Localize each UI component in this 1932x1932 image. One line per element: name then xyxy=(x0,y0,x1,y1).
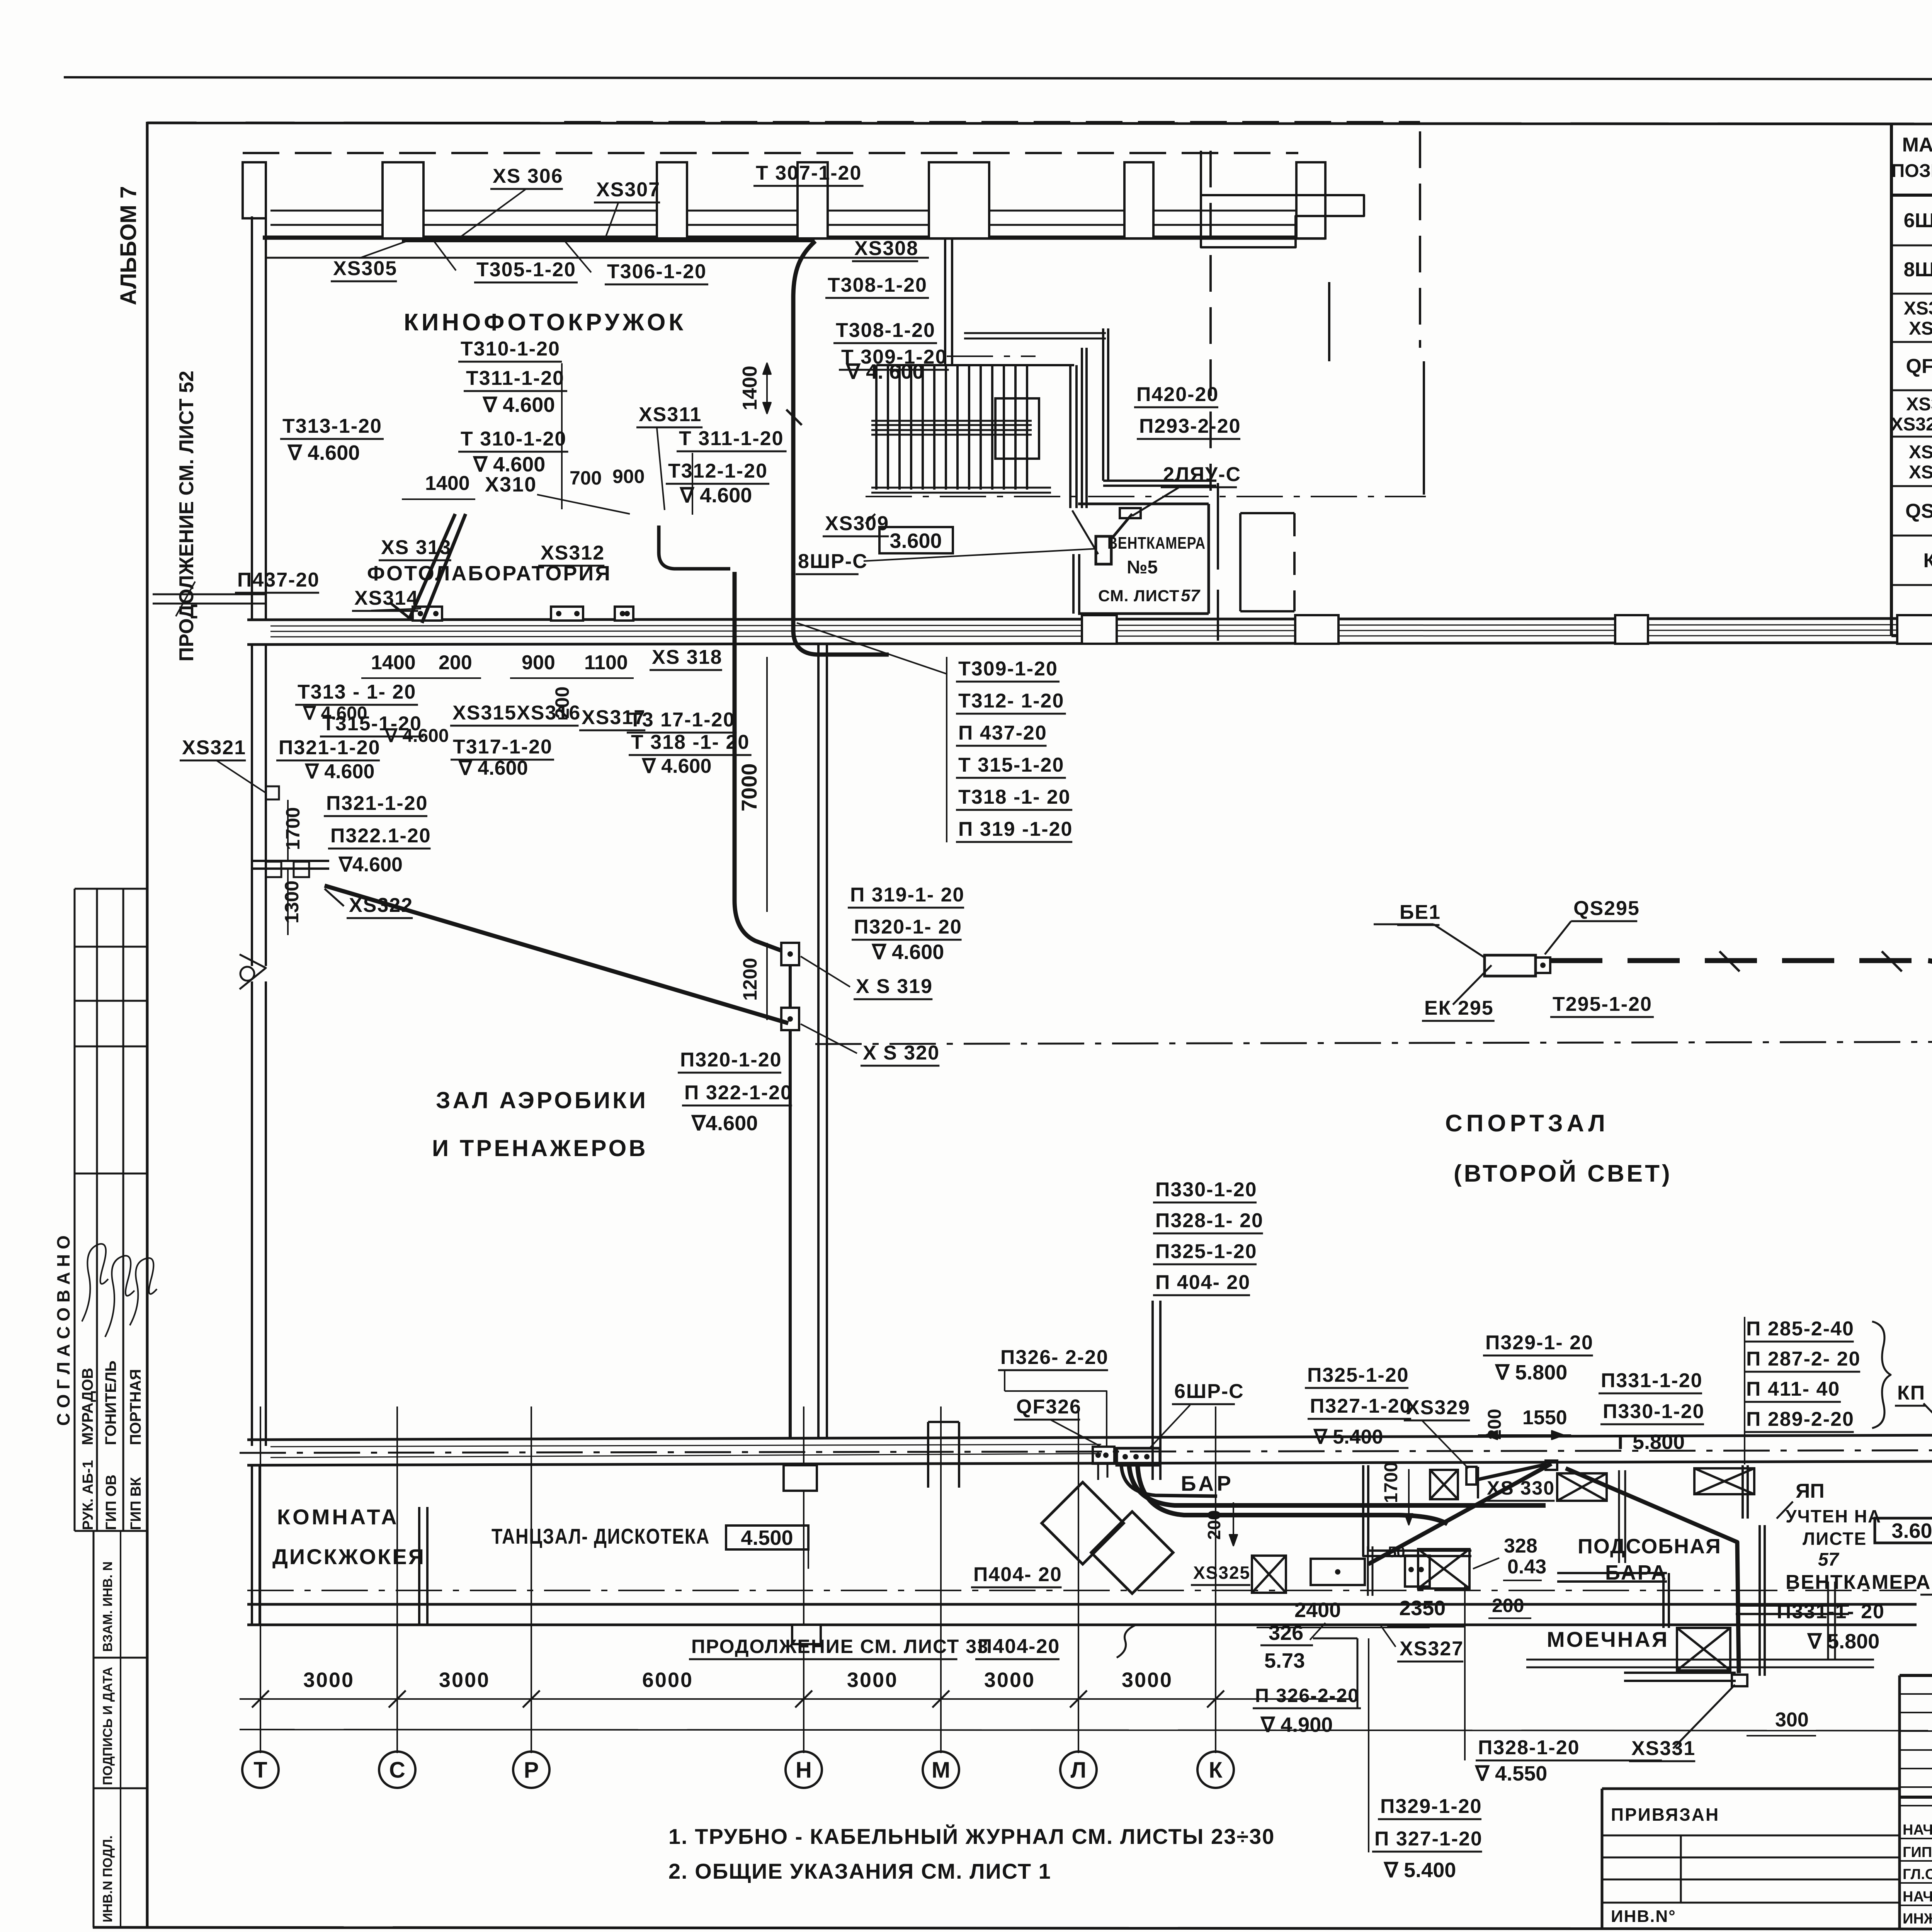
2LJAU device xyxy=(1120,508,1141,518)
svg-text:П329-1- 20: П329-1- 20 xyxy=(1485,1332,1594,1354)
wall sockets XS321-322 xyxy=(266,786,279,799)
wall above ventkamera5 xyxy=(964,332,1106,334)
hall east wall xyxy=(817,645,820,1438)
svg-text:ПРОДОЛЖЕНИЕ СМ. ЛИСТ 33: ПРОДОЛЖЕНИЕ СМ. ЛИСТ 33 xyxy=(691,1636,989,1657)
svg-text:И ТРЕНАЖЕРОВ: И ТРЕНАЖЕРОВ xyxy=(432,1135,648,1161)
svg-text:X310: X310 xyxy=(485,473,537,496)
shaft right of vent5 xyxy=(1239,513,1242,611)
svg-text:XS325,: XS325, xyxy=(1906,394,1932,415)
svg-text:УЧТЕН НА: УЧТЕН НА xyxy=(1786,1506,1881,1526)
svg-text:П 404- 20: П 404- 20 xyxy=(1155,1271,1250,1294)
axis 15 dashdot to circle xyxy=(240,1450,1932,1453)
svg-text:7000: 7000 xyxy=(737,763,761,811)
frame bottom border xyxy=(93,1927,1932,1930)
svg-text:∇ 4.600: ∇ 4.600 xyxy=(304,760,374,783)
svg-text:Т 307-1-20: Т 307-1-20 xyxy=(756,162,862,184)
wire from XS308 down xyxy=(793,241,889,655)
svg-text:XS331: XS331 xyxy=(1631,1737,1696,1760)
brace right xyxy=(1872,1321,1891,1428)
fotolab partition xyxy=(252,860,329,862)
svg-text:XS 330: XS 330 xyxy=(1487,1477,1555,1499)
svg-text:3000: 3000 xyxy=(847,1668,898,1692)
upper dashed line y316 xyxy=(564,121,1420,123)
svg-text:П 287-2- 20: П 287-2- 20 xyxy=(1746,1348,1861,1370)
svg-text:П331-1-20: П331-1-20 xyxy=(1601,1369,1703,1392)
svg-text:X S 320: X S 320 xyxy=(863,1042,940,1064)
svg-text:С О Г Л А С О В А Н О: С О Г Л А С О В А Н О xyxy=(53,1235,73,1426)
left exterior wall xyxy=(251,216,253,620)
wire trunk x1901 down (7000) xyxy=(735,572,781,951)
svg-text:П327-1-20: П327-1-20 xyxy=(1310,1395,1412,1417)
svg-text:∇ 4.600: ∇ 4.600 xyxy=(458,757,528,779)
svg-text:П 411- 40: П 411- 40 xyxy=(1746,1378,1840,1400)
ventkamera5 west wall xyxy=(1102,328,1104,481)
stair axis dashdot short xyxy=(947,355,1036,357)
svg-text:3.600: 3.600 xyxy=(889,529,942,553)
svg-text:СПОРТЗАЛ: СПОРТЗАЛ xyxy=(1445,1110,1609,1137)
svg-text:Т306-1-20: Т306-1-20 xyxy=(607,260,707,283)
podsobnaya east riser pair xyxy=(1618,1470,1620,1563)
bottom axes stems and circles xyxy=(260,1406,261,1753)
wire XS311 down to XS312 xyxy=(659,526,730,569)
svg-text:ДИСКЖОКЕЯ: ДИСКЖОКЕЯ xyxy=(272,1544,425,1569)
svg-text:XS 306: XS 306 xyxy=(493,165,563,187)
svg-text:1700: 1700 xyxy=(282,807,304,850)
bar diagonal trunk to XS331 xyxy=(1566,1468,1739,1673)
svg-text:Т3 17-1-20: Т3 17-1-20 xyxy=(629,709,735,731)
svg-text:6ШР-С: 6ШР-С xyxy=(1174,1380,1244,1403)
svg-text:1400: 1400 xyxy=(371,651,416,674)
svg-text:ВЗАМ. ИНВ. N: ВЗАМ. ИНВ. N xyxy=(100,1561,115,1652)
svg-text:Т 318 -1- 20: Т 318 -1- 20 xyxy=(631,731,750,753)
svg-text:КОМНАТА: КОМНАТА xyxy=(277,1505,399,1529)
title block outer xyxy=(1900,1674,1932,1677)
svg-text:8ШР-С: 8ШР-С xyxy=(1904,259,1932,281)
svg-text:XS322: XS322 xyxy=(1909,318,1932,339)
8ShR-S device xyxy=(1096,536,1111,564)
ventkamera5 room xyxy=(1078,503,1209,505)
svg-text:П325-1-20: П325-1-20 xyxy=(1307,1364,1409,1386)
svg-text:ЛИСТЕ: ЛИСТЕ xyxy=(1803,1529,1867,1549)
svg-text:П331-1- 20: П331-1- 20 xyxy=(1777,1600,1885,1623)
bar right walls xyxy=(1742,1465,1744,1519)
section dashed vertical x3675 xyxy=(1419,131,1421,348)
svg-text:П326- 2-20: П326- 2-20 xyxy=(1000,1346,1109,1369)
svg-text:700: 700 xyxy=(570,467,602,489)
axis 17 dashdot line xyxy=(815,1041,1932,1044)
svg-text:ИНЖЕНЕР: ИНЖЕНЕР xyxy=(1903,1911,1932,1927)
svg-text:XS325: XS325 xyxy=(1193,1563,1250,1583)
svg-text:XS330: XS330 xyxy=(1909,442,1932,463)
stair steps xyxy=(875,365,878,490)
frame left border xyxy=(146,122,149,1928)
spec table grid xyxy=(1890,124,1893,636)
corridor wall x3152 xyxy=(1217,483,1219,570)
svg-text:ГИП ВК: ГИП ВК xyxy=(128,1477,144,1530)
svg-text:ВЕНТКАМЕРА: ВЕНТКАМЕРА xyxy=(1107,534,1206,553)
podsobnaya walls xyxy=(1557,1572,1667,1574)
bottom corridor band xyxy=(247,1434,1932,1440)
svg-text:РУК. АБ-1: РУК. АБ-1 xyxy=(80,1460,96,1530)
podsobnaya-moechnaya divider xyxy=(1827,1582,1829,1660)
svg-text:XS305÷: XS305÷ xyxy=(1904,298,1932,319)
svg-text:ТАНЦЗАЛ- ДИСКОТЕКА: ТАНЦЗАЛ- ДИСКОТЕКА xyxy=(492,1524,710,1548)
dashed trunk horizontal from EK295 xyxy=(1550,958,1928,963)
section dashed vertical x3133 xyxy=(1209,151,1212,491)
svg-text:XS315XS316: XS315XS316 xyxy=(452,702,581,724)
svg-text:П321-1-20: П321-1-20 xyxy=(326,792,428,815)
svg-text:П330-1-20: П330-1-20 xyxy=(1155,1179,1257,1201)
socket XS329 at wall xyxy=(1466,1467,1476,1485)
svg-text:С: С xyxy=(389,1757,405,1782)
QF326 device xyxy=(1093,1447,1114,1464)
corridor band piers xyxy=(1295,615,1338,644)
svg-text:XS312: XS312 xyxy=(541,542,605,564)
title names column xyxy=(1900,1838,1932,1839)
dance hall centerline xyxy=(247,1590,1917,1591)
moechnaya walls xyxy=(1624,1672,1736,1674)
top left corner wall xyxy=(243,162,266,218)
svg-text:XS309: XS309 xyxy=(825,512,889,535)
svg-text:Т318 -1- 20: Т318 -1- 20 xyxy=(958,786,1071,808)
svg-text:∇ 5.800: ∇ 5.800 xyxy=(1807,1630,1879,1653)
ventkamera5 north wall xyxy=(1103,480,1216,482)
svg-text:ВЕНТКАМЕРА №6: ВЕНТКАМЕРА №6 xyxy=(1786,1571,1932,1594)
svg-text:1400: 1400 xyxy=(425,472,470,495)
svg-text:3000: 3000 xyxy=(439,1668,490,1692)
svg-text:Т313 - 1- 20: Т313 - 1- 20 xyxy=(298,681,416,703)
svg-text:П320-1- 20: П320-1- 20 xyxy=(854,916,962,938)
svg-text:МАРКА: МАРКА xyxy=(1902,134,1932,156)
svg-text:БЕ1: БЕ1 xyxy=(1400,901,1441,923)
roof overhang dashed line xyxy=(243,152,1298,154)
bar big diagonal wire xyxy=(1368,1464,1551,1564)
left stamp lower block xyxy=(93,1531,95,1927)
bar small devices xyxy=(1252,1556,1286,1593)
svg-text:П 319-1- 20: П 319-1- 20 xyxy=(850,884,964,906)
svg-text:П321-1-20: П321-1-20 xyxy=(279,736,381,759)
svg-text:XS321: XS321 xyxy=(182,736,246,759)
svg-text:П320-1-20: П320-1-20 xyxy=(680,1049,782,1071)
svg-text:XS329: XS329 xyxy=(1406,1396,1470,1419)
stairwell west wall upper xyxy=(944,240,946,365)
svg-text:Т295-1-20: Т295-1-20 xyxy=(1553,993,1652,1015)
corridor band walls xyxy=(247,618,1932,620)
svg-text:Т312- 1-20: Т312- 1-20 xyxy=(958,690,1064,712)
svg-text:2ЛЯУ-С: 2ЛЯУ-С xyxy=(1163,463,1241,486)
svg-text:∇ 5.400: ∇ 5.400 xyxy=(1313,1426,1383,1448)
svg-text:3000: 3000 xyxy=(1122,1668,1173,1692)
svg-text:БАРА: БАРА xyxy=(1605,1561,1668,1584)
svg-text:ГИП ОВ: ГИП ОВ xyxy=(103,1475,119,1530)
stair support rect xyxy=(995,398,1039,459)
dj room walls xyxy=(251,1465,253,1625)
bar counter diamonds xyxy=(1042,1482,1124,1564)
svg-text:3.600: 3.600 xyxy=(1891,1519,1932,1543)
svg-text:Т317-1-20: Т317-1-20 xyxy=(453,736,553,758)
svg-text:ГЛ.СПЕЦ.: ГЛ.СПЕЦ. xyxy=(1903,1866,1932,1883)
wall stub right of stair xyxy=(1328,282,1330,361)
title registration table xyxy=(1900,1693,1932,1695)
svg-text:Т 315-1-20: Т 315-1-20 xyxy=(958,754,1064,776)
svg-text:МОЕЧНАЯ: МОЕЧНАЯ xyxy=(1547,1627,1669,1651)
svg-text:Т 311-1-20: Т 311-1-20 xyxy=(679,427,784,450)
svg-text:Л: Л xyxy=(1071,1757,1087,1782)
left wall door circle xyxy=(240,967,254,981)
svg-text:50: 50 xyxy=(1388,1544,1405,1561)
svg-text:Т312-1-20: Т312-1-20 xyxy=(668,460,768,482)
svg-text:ПОДСОБНАЯ: ПОДСОБНАЯ xyxy=(1578,1535,1721,1558)
svg-text:2. ОБЩИЕ УКАЗАНИЯ СМ.: 2. ОБЩИЕ УКАЗАНИЯ СМ. ЛИСТ 1 xyxy=(668,1859,1051,1883)
svg-text:П325-1-20: П325-1-20 xyxy=(1155,1240,1257,1263)
svg-text:5.73: 5.73 xyxy=(1264,1649,1305,1672)
EK295 leader xyxy=(1453,965,1492,1005)
svg-text:4.500: 4.500 xyxy=(741,1526,793,1549)
svg-text:Т310-1-20: Т310-1-20 xyxy=(461,338,560,360)
wall right of moechnaya xyxy=(1736,1604,1849,1607)
wall stub left with break xyxy=(153,594,266,595)
EK295 device box xyxy=(1485,955,1536,976)
svg-text:ИНВ.N ПОДЛ.: ИНВ.N ПОДЛ. xyxy=(100,1835,115,1922)
svg-text:П322.1-20: П322.1-20 xyxy=(330,825,431,847)
svg-text:ПОЗИЦИЯ: ПОЗИЦИЯ xyxy=(1891,161,1932,181)
band window lines bottom xyxy=(270,1444,1101,1447)
svg-text:1100: 1100 xyxy=(584,651,628,674)
svg-text:ПРИВЯЗАН: ПРИВЯЗАН xyxy=(1611,1804,1719,1825)
svg-text:Т 310-1-20: Т 310-1-20 xyxy=(461,428,566,450)
svg-text:∇ 4.600: ∇ 4.600 xyxy=(287,441,360,464)
svg-text:М: М xyxy=(932,1757,950,1782)
bar riser pipes xyxy=(1151,1301,1154,1480)
stair mid stringer xyxy=(871,420,1032,422)
svg-text:XS331: XS331 xyxy=(1909,462,1932,483)
svg-text:3000: 3000 xyxy=(303,1668,354,1692)
svg-text:XS327: XS327 xyxy=(1400,1638,1464,1660)
svg-text:XS 313: XS 313 xyxy=(381,536,452,559)
svg-text:1700: 1700 xyxy=(1381,1462,1401,1503)
svg-text:Р: Р xyxy=(524,1757,539,1782)
svg-text:∇4.600: ∇4.600 xyxy=(338,854,403,876)
stair door diagonal xyxy=(1072,510,1098,554)
svg-text:П 437-20: П 437-20 xyxy=(958,722,1047,744)
svg-text:Т313-1-20: Т313-1-20 xyxy=(282,415,382,437)
level 3.600 boxed right xyxy=(1875,1518,1932,1543)
svg-text:П420-20: П420-20 xyxy=(1136,383,1219,406)
svg-text:П293-2-20: П293-2-20 xyxy=(1139,415,1241,437)
svg-text:П 322-1-20: П 322-1-20 xyxy=(684,1082,793,1104)
svg-text:КИНОФОТОКРУЖОК: КИНОФОТОКРУЖОК xyxy=(404,309,686,336)
svg-text:6000: 6000 xyxy=(642,1668,693,1692)
svg-text:X S 319: X S 319 xyxy=(856,975,933,998)
socket XS330 device xyxy=(1546,1461,1557,1470)
svg-text:∇ 4.600: ∇ 4.600 xyxy=(679,484,752,507)
svg-text:П 319 -1-20: П 319 -1-20 xyxy=(958,818,1073,840)
svg-text:ЗАЛ АЭРОБИКИ: ЗАЛ АЭРОБИКИ xyxy=(436,1087,648,1113)
svg-text:К: К xyxy=(1209,1757,1223,1782)
svg-text:КП: КП xyxy=(1923,549,1932,572)
svg-text:НАЧ.ОТД.: НАЧ.ОТД. xyxy=(1903,1822,1932,1838)
level 4.500 boxed xyxy=(726,1526,808,1549)
stairwell top wall xyxy=(876,364,1074,366)
sheet top edge line xyxy=(64,77,1932,80)
xbox moechnaya xyxy=(1677,1628,1730,1670)
svg-text:XS314: XS314 xyxy=(354,587,418,609)
xbox small bar xyxy=(1418,1549,1469,1588)
band piers bottom xyxy=(784,1465,817,1491)
wall top right L xyxy=(1201,151,1364,247)
svg-text:1200: 1200 xyxy=(739,958,761,1001)
svg-text:Т308-1-20: Т308-1-20 xyxy=(828,274,927,296)
svg-text:6ШР-С: 6ШР-С xyxy=(1904,209,1932,232)
svg-text:ГИП: ГИП xyxy=(1903,1844,1932,1861)
wire to XS330 xyxy=(1476,1464,1546,1480)
svg-text:(ВТОРОЙ СВЕТ): (ВТОРОЙ СВЕТ) xyxy=(1454,1160,1672,1187)
svg-text:XS311: XS311 xyxy=(639,403,702,426)
axis M pier below band xyxy=(927,1422,929,1488)
frame top border xyxy=(147,123,1932,124)
corridor dashdot y1285 xyxy=(866,496,1426,497)
stair east wall xyxy=(1069,365,1071,508)
svg-text:XS305: XS305 xyxy=(333,257,397,280)
svg-text:Т311-1-20: Т311-1-20 xyxy=(466,367,565,389)
top wall piers xyxy=(383,162,423,238)
svg-text:∇ 5.400: ∇ 5.400 xyxy=(1383,1859,1456,1882)
svg-text:Т305-1-20: Т305-1-20 xyxy=(476,259,576,281)
bottom wall pier xyxy=(792,1625,821,1644)
svg-text:2400: 2400 xyxy=(1294,1599,1341,1622)
svg-text:П404-20: П404-20 xyxy=(978,1635,1060,1658)
svg-text:П437-20: П437-20 xyxy=(237,569,320,591)
svg-text:0.43: 0.43 xyxy=(1507,1556,1546,1578)
svg-text:Т308-1-20: Т308-1-20 xyxy=(836,319,935,342)
socket blocks on band xyxy=(413,607,442,621)
bar G-wall xyxy=(1363,1465,1471,1556)
svg-text:ПОДПИСЬ И ДАТА: ПОДПИСЬ И ДАТА xyxy=(100,1667,115,1785)
wire top trunk along wall xyxy=(402,238,815,242)
svg-text:ЕК 295: ЕК 295 xyxy=(1424,997,1494,1019)
svg-text:∇ 5.800: ∇ 5.800 xyxy=(1495,1361,1567,1384)
wire vert between sockets and down xyxy=(789,965,792,1008)
svg-text:QS295: QS295 xyxy=(1905,500,1932,522)
dance hall bottom wall xyxy=(247,1603,1917,1606)
svg-text:3000: 3000 xyxy=(984,1668,1035,1692)
socket XS320 block xyxy=(781,1008,799,1030)
svg-text:МУРАДОВ: МУРАДОВ xyxy=(79,1368,96,1445)
svg-text:∇ 4.600: ∇ 4.600 xyxy=(871,940,944,964)
svg-text:∇ 4. 600: ∇ 4. 600 xyxy=(845,360,924,383)
svg-text:1300: 1300 xyxy=(281,881,303,923)
break squiggle P404 xyxy=(1117,1625,1135,1658)
svg-text:СМ. ЛИСТ: СМ. ЛИСТ xyxy=(1098,587,1180,605)
svg-text:∇ 4.900: ∇ 4.900 xyxy=(1260,1713,1333,1736)
svg-text:200: 200 xyxy=(1492,1595,1524,1616)
stair bottom lines xyxy=(871,487,1051,489)
svg-text:57: 57 xyxy=(1181,586,1201,605)
svg-text:П328-1-20: П328-1-20 xyxy=(1478,1736,1580,1759)
left stamp upper block xyxy=(74,889,76,1531)
svg-text:ПОРТНАЯ: ПОРТНАЯ xyxy=(127,1369,144,1445)
svg-text:∇ 4.600: ∇ 4.600 xyxy=(384,726,449,746)
svg-text:П 326-2-20: П 326-2-20 xyxy=(1255,1685,1359,1706)
svg-text:QF326: QF326 xyxy=(1016,1396,1082,1418)
svg-text:№5: №5 xyxy=(1127,557,1158,578)
wire diagonal to XS320 xyxy=(325,886,788,1023)
svg-text:1550: 1550 xyxy=(1522,1406,1567,1429)
stack leader diagonal xyxy=(797,623,947,674)
svg-text:XS322: XS322 xyxy=(349,894,413,917)
svg-text:8ШР-С: 8ШР-С xyxy=(798,550,868,573)
svg-text:57: 57 xyxy=(1818,1549,1840,1570)
level 3.600 boxed xyxy=(879,527,953,553)
привязан box xyxy=(1602,1787,1900,1790)
svg-text:ГОНИТЕЛЬ: ГОНИТЕЛЬ xyxy=(102,1361,119,1445)
svg-text:НАЧ.ГР.: НАЧ.ГР. xyxy=(1903,1889,1932,1905)
top wall inner face line xyxy=(266,257,929,259)
svg-text:200: 200 xyxy=(439,651,472,674)
svg-text:П329-1-20: П329-1-20 xyxy=(1380,1795,1482,1818)
svg-text:Т 5.800: Т 5.800 xyxy=(1614,1430,1685,1454)
svg-text:QS295: QS295 xyxy=(1573,897,1640,920)
bottom dimension line xyxy=(240,1698,1352,1700)
svg-text:П330-1-20: П330-1-20 xyxy=(1603,1400,1705,1423)
svg-text:326: 326 xyxy=(1269,1621,1303,1645)
stamp signature squiggles xyxy=(82,1244,108,1321)
socket XS319 block xyxy=(781,943,799,965)
xbox b xyxy=(1557,1473,1607,1501)
svg-text:Н: Н xyxy=(796,1757,812,1782)
svg-text:1400: 1400 xyxy=(739,366,761,410)
svg-text:XS307: XS307 xyxy=(596,179,660,201)
svg-text:П 289-2-20: П 289-2-20 xyxy=(1746,1408,1854,1430)
wire XS313 diagonals xyxy=(410,514,455,618)
svg-text:∇4.600: ∇4.600 xyxy=(691,1112,758,1135)
xbox a xyxy=(1430,1470,1458,1499)
xbox c xyxy=(1694,1468,1754,1494)
svg-text:БАР: БАР xyxy=(1181,1471,1234,1495)
svg-text:П 285-2-40: П 285-2-40 xyxy=(1746,1318,1854,1340)
svg-text:2350: 2350 xyxy=(1399,1597,1446,1620)
svg-text:XS 318: XS 318 xyxy=(652,646,723,668)
svg-text:300: 300 xyxy=(1775,1709,1809,1731)
top wall inner thick line xyxy=(263,236,1325,240)
svg-text:328: 328 xyxy=(1504,1535,1537,1557)
axis 14 dashdot xyxy=(1920,1594,1932,1595)
svg-text:XS327,329: XS327,329 xyxy=(1891,414,1932,435)
svg-text:∇ 4.600: ∇ 4.600 xyxy=(473,453,545,476)
stack leader verticals xyxy=(561,363,563,509)
svg-text:КП: КП xyxy=(1897,1382,1925,1404)
svg-text:200: 200 xyxy=(1204,1510,1224,1540)
svg-text:ПРОДОЛЖЕНИЕ СМ. ЛИСТ 52: ПРОДОЛЖЕНИЕ СМ. ЛИСТ 52 xyxy=(175,371,198,662)
svg-text:∇ 4.600: ∇ 4.600 xyxy=(482,393,555,417)
svg-text:ЯП: ЯП xyxy=(1796,1480,1825,1502)
svg-text:Т309-1-20: Т309-1-20 xyxy=(958,658,1058,680)
svg-text:QF326: QF326 xyxy=(1906,355,1932,378)
svg-text:ИНВ.N°: ИНВ.N° xyxy=(1611,1907,1676,1926)
svg-text:П 327-1-20: П 327-1-20 xyxy=(1374,1828,1483,1850)
svg-text:∇ 4.600: ∇ 4.600 xyxy=(641,755,711,777)
svg-text:900: 900 xyxy=(522,651,555,674)
svg-text:XS308: XS308 xyxy=(854,237,918,260)
svg-text:1. ТРУБНО - КАБЕЛЬНЫЙ ЖУРНАЛ: 1. ТРУБНО - КАБЕЛЬНЫЙ ЖУРНАЛ СМ. ЛИСТЫ 2… xyxy=(668,1824,1275,1849)
svg-text:АЛЬБОМ 7: АЛЬБОМ 7 xyxy=(116,186,141,305)
svg-text:Т: Т xyxy=(253,1757,267,1782)
svg-text:П404- 20: П404- 20 xyxy=(973,1563,1062,1586)
top wall window lines xyxy=(270,210,1325,212)
QS295 leader xyxy=(1545,921,1571,954)
bar wire bundle xyxy=(1129,1465,1546,1505)
XS331 device xyxy=(1732,1675,1747,1686)
